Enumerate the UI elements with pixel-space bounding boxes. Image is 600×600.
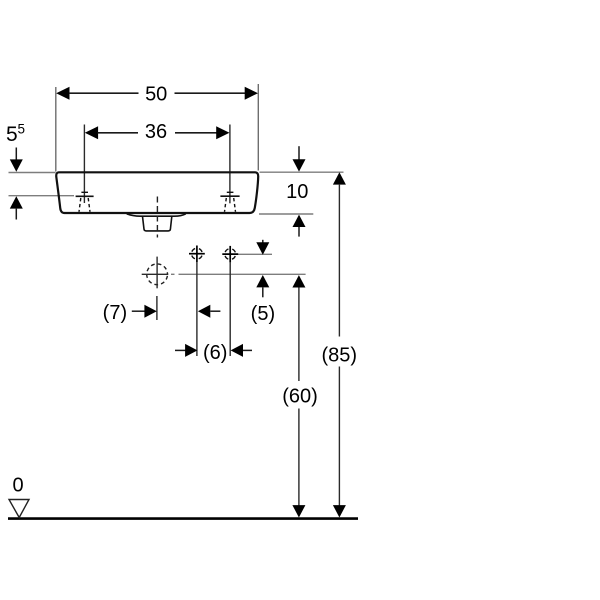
svg-text:50: 50 [145,84,167,106]
dimension 10 lower arrow [293,215,306,237]
water connection hole right [222,246,238,263]
dimension 60 lower segment with down arrow [292,409,305,518]
dimension 7 extension line below siphon [156,296,158,320]
water connection hole left [189,246,205,263]
siphon vertical center line [156,257,158,289]
reference line tap connection level [237,253,273,255]
dimension 7 left pointing arrow [198,305,221,318]
washbasin outline front view [56,172,258,213]
dimension 85 upper segment with up arrow [333,172,346,336]
dimension 5 lower arrow [256,275,269,297]
datum symbol open triangle [9,500,29,518]
dimension 36 left extension line [83,125,85,204]
dimension 6 left arrow [175,344,198,357]
drain bowl underside [127,214,186,216]
floor line [8,517,358,520]
tap hole left dashed with center cross [76,192,94,212]
dimension 5.5 upper reference line [9,172,56,174]
reference line basin bottom right [259,213,313,215]
dimension 50 left extension line [55,87,57,172]
svg-text:5: 5 [18,122,26,137]
dimension 60 upper segment with up arrow [292,275,305,381]
svg-text:36: 36 [145,121,167,143]
dimension 5.5 lower reference line [9,195,75,197]
dimension 50 right extension line [257,84,259,171]
tap hole right dashed with center cross [220,192,239,212]
svg-text:(6): (6) [203,342,227,364]
svg-text:(85): (85) [322,345,358,367]
dimension 50 dimension line with arrowheads [56,87,258,100]
drain outlet [143,216,172,231]
dimension 5 upper arrow [256,240,269,255]
dimension 5.5 down arrow [10,148,23,172]
siphon outlet dashed circle [147,264,168,285]
dimension 5.5 up arrow [10,196,23,219]
reference line basin top right [260,171,344,173]
dimension 10 upper arrow [293,146,306,171]
svg-text:(60): (60) [282,386,318,408]
dimension 6 right arrow [231,344,252,357]
dimension 36 dimension line with arrowheads [85,126,230,139]
extension line from hole left [196,262,198,356]
drain center line dashed [156,197,158,238]
dimension 85 lower segment with down arrow [333,367,346,518]
svg-text:(7): (7) [103,302,127,324]
svg-text:(5): (5) [251,303,275,325]
svg-text:10: 10 [286,181,308,203]
reference line siphon level [179,273,306,275]
siphon horizontal center line [142,273,175,275]
extension line from hole right [229,262,231,356]
dimension 7 right pointing arrow [132,305,157,318]
dimension 36 right extension line [229,125,231,204]
svg-text:5: 5 [6,123,18,146]
svg-text:0: 0 [12,475,23,497]
